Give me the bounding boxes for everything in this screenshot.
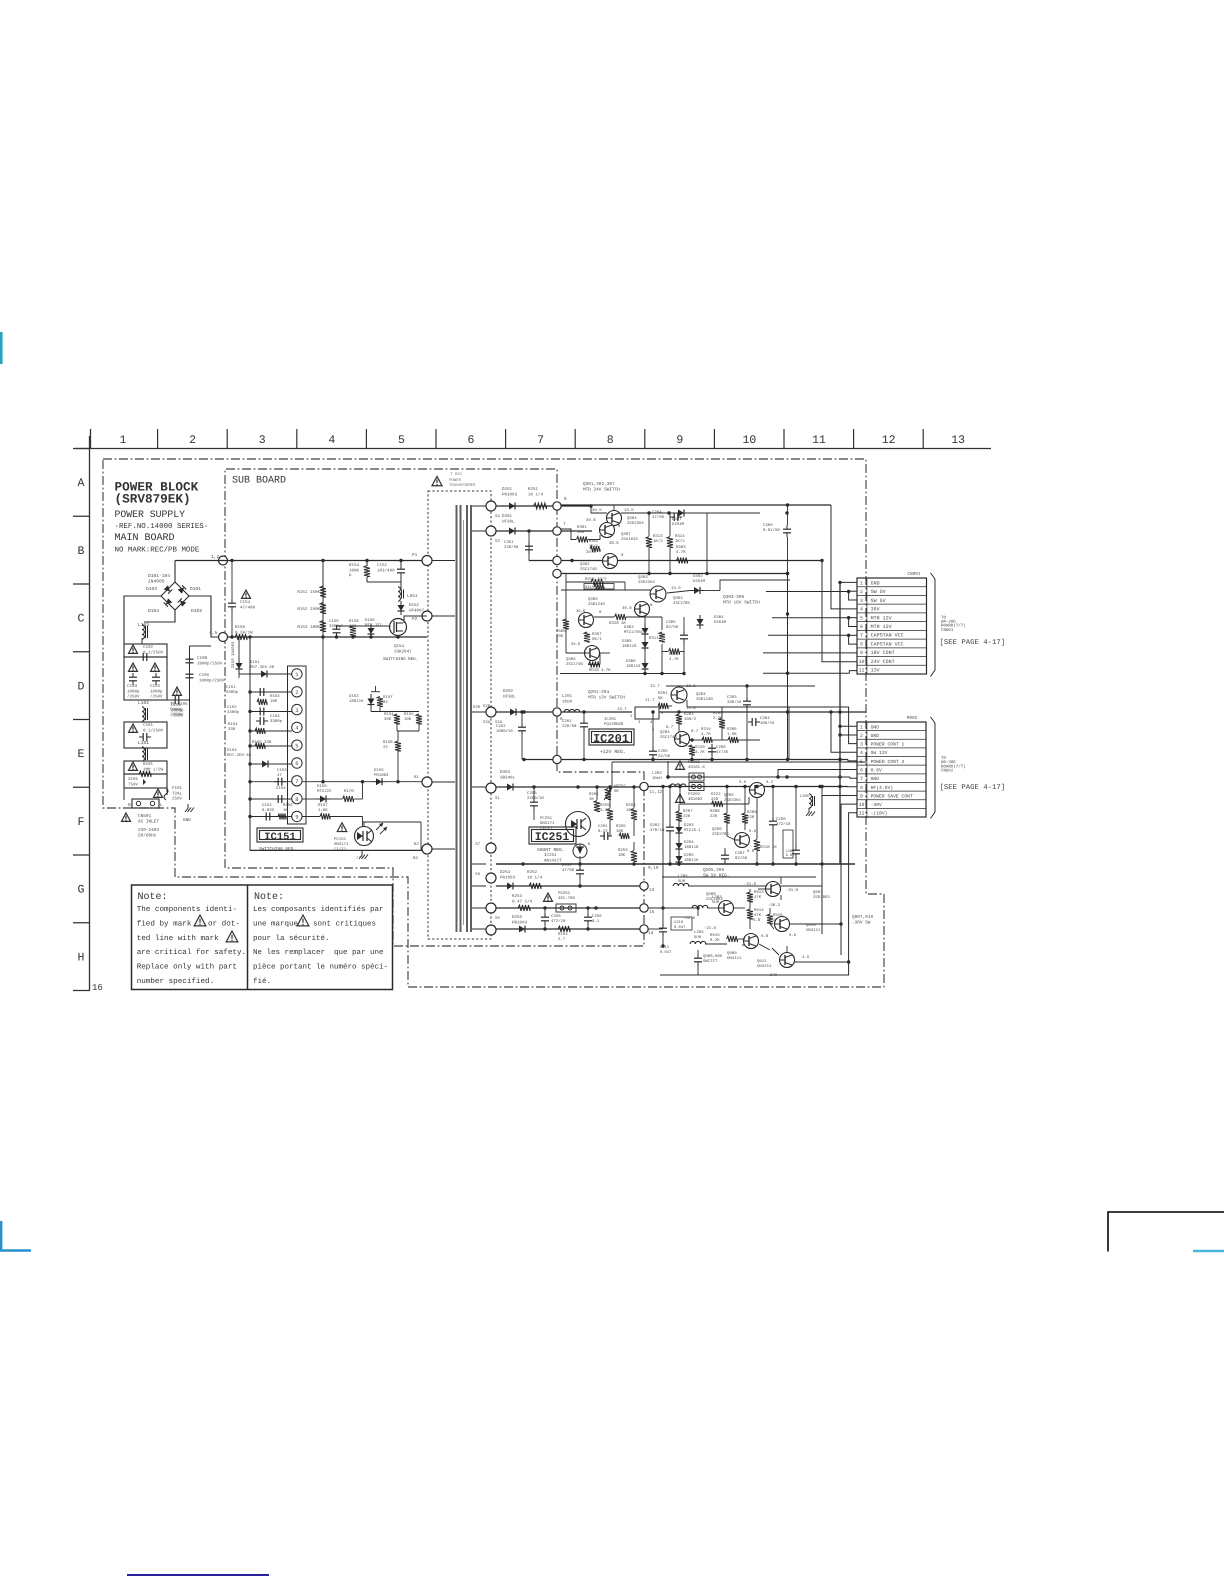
svg-text:5.9: 5.9 xyxy=(749,829,757,834)
svg-text:C102: C102 xyxy=(143,645,154,650)
svg-text:R203: R203 xyxy=(684,712,694,717)
svg-text:188118: 188118 xyxy=(684,845,699,850)
svg-text:F101: F101 xyxy=(172,786,183,791)
svg-text:D104: D104 xyxy=(148,608,159,614)
svg-text:C201: C201 xyxy=(562,719,572,724)
junction dots feeder a xyxy=(786,572,789,575)
svg-text:5: 5 xyxy=(398,434,405,447)
svg-text:47: 47 xyxy=(277,773,282,778)
svg-text:RD7.2E9-40: RD7.2E9-40 xyxy=(227,753,252,758)
svg-text:PR1003: PR1003 xyxy=(500,875,516,880)
optocoupler PC151 xyxy=(355,827,374,846)
wire Q154 source xyxy=(397,636,399,638)
svg-text:(SRV879EK): (SRV879EK) xyxy=(115,492,191,507)
resistor R261 xyxy=(594,801,600,812)
svg-text:R155 330: R155 330 xyxy=(252,740,272,745)
svg-text:R156: R156 xyxy=(235,625,246,630)
svg-text:R101: R101 xyxy=(143,762,154,767)
wire R210 xyxy=(756,798,758,839)
safety mark C101 xyxy=(129,724,138,732)
filter box C101/L101 xyxy=(124,722,167,748)
wire C209 xyxy=(795,787,797,847)
svg-text:6: 6 xyxy=(468,434,475,447)
svg-text:D154: D154 xyxy=(227,748,237,753)
svg-text:C152: C152 xyxy=(377,563,388,568)
resistor R201 xyxy=(658,703,668,709)
svg-text:2SA1015: 2SA1015 xyxy=(621,537,638,542)
inductor L102 xyxy=(142,707,144,712)
svg-text:GND: GND xyxy=(871,776,880,782)
svg-text:SWITCHING REG.: SWITCHING REG. xyxy=(383,657,418,662)
svg-text:R311: R311 xyxy=(649,636,659,641)
transformer terminal S1 xyxy=(486,783,496,793)
svg-text:SW 5V: SW 5V xyxy=(871,598,886,604)
svg-text:C154: C154 xyxy=(276,786,286,791)
wire C202 xyxy=(669,787,671,824)
diode D152 xyxy=(398,605,405,611)
resistor R914 xyxy=(747,909,753,919)
svg-text:S2B: S2B xyxy=(483,704,491,709)
wire c255 c256 xyxy=(544,908,546,913)
svg-text:R914: R914 xyxy=(754,908,764,913)
svg-text:5: 5 xyxy=(860,615,863,621)
svg-text:F: F xyxy=(78,816,85,829)
svg-text:250V: 250V xyxy=(172,797,183,802)
diode D303z xyxy=(642,628,649,634)
svg-text:5: 5 xyxy=(860,759,863,765)
svg-text:L201: L201 xyxy=(562,694,573,699)
transistor Q306 xyxy=(585,646,600,661)
svg-text:or dot-: or dot- xyxy=(208,919,240,928)
svg-text:8: 8 xyxy=(295,796,298,803)
note right warn xyxy=(297,915,309,926)
svg-text:4.7K: 4.7K xyxy=(701,732,711,737)
terminal node gnd12 xyxy=(553,755,561,763)
svg-text:1K: 1K xyxy=(283,808,288,813)
svg-text:1.6K: 1.6K xyxy=(318,808,328,813)
svg-text:10: 10 xyxy=(742,434,756,447)
wire to CN501 right xyxy=(166,788,168,795)
svg-text:PS202: PS202 xyxy=(688,792,701,797)
svg-text:POWER SAVE CONT: POWER SAVE CONT xyxy=(871,793,913,799)
diode D255 xyxy=(519,926,525,933)
svg-text:39.8: 39.8 xyxy=(576,609,586,614)
svg-text:Q205: Q205 xyxy=(724,793,734,798)
svg-text:GND: GND xyxy=(871,733,880,739)
junction dots 573 xyxy=(647,572,650,575)
wire C207 xyxy=(724,848,726,851)
inductor L206 xyxy=(809,794,811,799)
resistor R154 xyxy=(364,566,370,577)
svg-text:13V: 13V xyxy=(871,668,880,674)
svg-text:PC151: PC151 xyxy=(334,837,347,842)
svg-text:2SD2786: 2SD2786 xyxy=(712,832,729,837)
svg-text:2SC2785: 2SC2785 xyxy=(673,601,690,606)
wire feeder extra7 xyxy=(840,711,866,713)
capacitor C101 xyxy=(139,736,143,738)
svg-text:L205: L205 xyxy=(678,874,688,879)
svg-text:R261: R261 xyxy=(589,792,599,797)
svg-text:39K: 39K xyxy=(384,717,392,722)
svg-text:8: 8 xyxy=(607,434,614,447)
svg-text:2SB1240: 2SB1240 xyxy=(696,697,713,702)
svg-text:UF4007: UF4007 xyxy=(409,608,425,613)
svg-text:D101: D101 xyxy=(190,586,201,592)
sub board dash-dot border xyxy=(225,469,644,946)
svg-text:5.9: 5.9 xyxy=(739,780,747,785)
svg-text:D153: D153 xyxy=(349,694,359,699)
svg-text:3300p: 3300p xyxy=(270,719,283,724)
svg-text:38.8: 38.8 xyxy=(609,541,619,546)
wire R209 xyxy=(744,787,746,814)
svg-text:2: 2 xyxy=(295,689,298,696)
svg-text:GND: GND xyxy=(871,724,880,730)
svg-text:fied by mark: fied by mark xyxy=(137,919,192,928)
svg-text:R326: R326 xyxy=(669,652,679,657)
svg-text:47/35: 47/35 xyxy=(716,750,729,755)
wire d column xyxy=(678,804,680,811)
svg-text:D: D xyxy=(78,680,85,693)
potentiometer VR251 xyxy=(605,789,611,800)
svg-text:C309: C309 xyxy=(763,523,773,528)
svg-text:R253: R253 xyxy=(618,848,628,853)
svg-text:R151 150K: R151 150K xyxy=(297,590,320,595)
svg-text:R154: R154 xyxy=(349,563,360,568)
svg-text:C205: C205 xyxy=(658,749,668,754)
wire bridge left xyxy=(124,596,162,644)
svg-text:T2AL: T2AL xyxy=(172,791,183,796)
svg-text:0.01/50: 0.01/50 xyxy=(763,528,780,533)
svg-text:4.7K: 4.7K xyxy=(669,657,679,662)
wire q30x c xyxy=(688,512,760,514)
svg-text:MTZJ22: MTZJ22 xyxy=(317,789,332,794)
svg-text:10K: 10K xyxy=(577,530,585,535)
svg-text:[SEE PAGE 4-17]: [SEE PAGE 4-17] xyxy=(940,783,1006,792)
terminal node 1,2 xyxy=(219,556,228,565)
svg-text:SWITCHING REG.: SWITCHING REG. xyxy=(259,847,296,852)
svg-text:220: 220 xyxy=(711,797,719,802)
wire 18v rowb xyxy=(594,616,614,618)
junction dots bus250 xyxy=(248,690,251,693)
svg-text:8: 8 xyxy=(564,497,567,502)
IC151 pin circles 1-9 xyxy=(292,669,302,679)
svg-text:6: 6 xyxy=(860,768,863,774)
svg-text:Ne les remplacer que par une: Ne les remplacer que par une xyxy=(253,948,384,957)
svg-text:R313 10/2: R313 10/2 xyxy=(585,585,604,590)
svg-text:1: 1 xyxy=(860,724,863,730)
svg-text:-REF.NO.14000 SERIES-: -REF.NO.14000 SERIES- xyxy=(115,523,209,531)
svg-text:CAPSTAN VCC: CAPSTAN VCC xyxy=(871,633,904,639)
wire r158 down xyxy=(397,751,399,782)
svg-text:C351: C351 xyxy=(504,540,514,545)
svg-text:PC251: PC251 xyxy=(540,816,553,821)
resistor R301 xyxy=(577,537,588,543)
wire bridge right xyxy=(188,596,219,637)
svg-text:12: 12 xyxy=(882,434,896,447)
terminal node15 xyxy=(640,904,648,912)
svg-text:MTR 24V SWITCH: MTR 24V SWITCH xyxy=(583,488,620,493)
wire pin7 xyxy=(250,781,292,783)
svg-text:47K: 47K xyxy=(754,913,762,918)
capacitor C211 xyxy=(697,954,699,958)
svg-text:22/50: 22/50 xyxy=(658,754,671,759)
transistor Q206 xyxy=(735,833,750,848)
svg-text:1K/2: 1K/2 xyxy=(675,539,685,544)
jumper PS202 xyxy=(689,783,704,791)
junction a xyxy=(589,504,592,507)
filter box R101 xyxy=(124,761,167,774)
ground pc151 xyxy=(361,851,363,855)
terminal node 4,5 xyxy=(219,633,228,642)
svg-text:MTR 12V SWITCH: MTR 12V SWITCH xyxy=(588,696,625,701)
junction dots rail864 xyxy=(521,862,524,865)
svg-text:C206: C206 xyxy=(716,745,726,750)
svg-text:Q301,302,307: Q301,302,307 xyxy=(583,482,615,487)
svg-text:ON3171: ON3171 xyxy=(540,821,555,826)
connector CN902 table xyxy=(857,722,926,817)
svg-text:R206: R206 xyxy=(727,727,737,732)
svg-text:R252: R252 xyxy=(527,870,538,875)
svg-text:CN501: CN501 xyxy=(138,814,152,819)
wire rail ps201 xyxy=(668,776,850,778)
svg-text:C109: C109 xyxy=(199,673,210,678)
svg-text:R152 150K: R152 150K xyxy=(297,607,320,612)
wire 18v row xyxy=(566,581,592,583)
svg-text:5.8: 5.8 xyxy=(753,918,761,923)
jumper PS201 xyxy=(689,773,704,781)
svg-text:G: G xyxy=(78,884,85,897)
wire 30v bottom rail xyxy=(660,974,849,976)
transformer terminal S8 xyxy=(486,925,496,935)
svg-text:9: 9 xyxy=(295,814,298,821)
svg-text:D307: D307 xyxy=(672,517,682,522)
wire transformer left stubs xyxy=(432,560,455,562)
svg-text:R209: R209 xyxy=(747,810,757,815)
svg-text:2SC1740: 2SC1740 xyxy=(566,662,583,667)
svg-text:POWER: POWER xyxy=(449,478,462,483)
resistor R156b xyxy=(278,814,286,820)
svg-text:188119: 188119 xyxy=(349,699,364,704)
svg-text:-31.0: -31.0 xyxy=(786,888,799,893)
resistor R152 xyxy=(320,603,326,614)
resistor R251 xyxy=(534,503,547,509)
svg-text:VR251: VR251 xyxy=(614,784,627,789)
svg-text:330/16: 330/16 xyxy=(727,700,742,705)
svg-text:472/10: 472/10 xyxy=(551,919,566,924)
svg-text:-30V: -30V xyxy=(871,802,882,808)
resistor R307 xyxy=(584,632,590,642)
svg-text:H: H xyxy=(78,951,85,964)
resistor R158c xyxy=(395,741,401,751)
svg-text:IC251: IC251 xyxy=(544,853,557,858)
svg-text:Q911: Q911 xyxy=(757,959,767,964)
wire 12v rail top xyxy=(666,685,815,687)
resistor R206 xyxy=(728,737,738,743)
transistor Q910 xyxy=(775,917,790,932)
svg-text:Q305: Q305 xyxy=(588,597,598,602)
capacitor C204 xyxy=(748,721,752,723)
svg-text:fié.: fié. xyxy=(253,977,271,986)
svg-text:R253: R253 xyxy=(512,894,523,899)
svg-text:Q302: Q302 xyxy=(580,562,590,567)
svg-text:pièce portant le numéro spéci-: pièce portant le numéro spéci- xyxy=(253,963,388,972)
power block dash-dot border xyxy=(103,459,884,987)
capacitor C253 xyxy=(533,798,535,802)
varistor Z101 xyxy=(143,779,149,785)
wire feeder gnd thick xyxy=(839,582,841,864)
svg-text:24V: 24V xyxy=(770,973,778,978)
fuse F101 xyxy=(164,788,168,800)
capacitor C255 xyxy=(544,913,546,917)
svg-text:1000p: 1000p xyxy=(127,689,140,694)
inductor L101 xyxy=(142,747,144,752)
svg-text:R210 1K: R210 1K xyxy=(760,845,777,850)
svg-text:0.22: 0.22 xyxy=(598,829,608,834)
wire 12v gnd rail xyxy=(524,759,848,761)
svg-text:D264M: D264M xyxy=(693,579,706,584)
wire L205 out xyxy=(688,885,820,887)
junction dots feeders xyxy=(838,710,841,713)
capacitor C104 xyxy=(132,673,134,677)
capacitor C151 xyxy=(256,691,260,693)
wire row731 xyxy=(396,724,398,731)
svg-text:3: 3 xyxy=(860,598,863,604)
svg-text:5K: 5K xyxy=(614,789,619,794)
svg-text:SUB BOARD: SUB BOARD xyxy=(232,476,286,487)
svg-text:5UH: 5UH xyxy=(712,900,720,905)
svg-text:POWER SUPPLY: POWER SUPPLY xyxy=(115,509,186,520)
diode D154 xyxy=(262,761,268,768)
wire rail S6 ground xyxy=(496,863,855,865)
IC151 pin strip xyxy=(288,666,307,824)
svg-text:9,10: 9,10 xyxy=(648,866,659,871)
svg-text:14: 14 xyxy=(648,931,654,936)
svg-text:M902: M902 xyxy=(907,716,918,721)
svg-text:T 651: T 651 xyxy=(450,472,463,477)
wire d153 loop xyxy=(371,691,380,693)
svg-text:R251: R251 xyxy=(528,487,539,492)
svg-text:C264: C264 xyxy=(652,510,662,515)
svg-text:5: 5 xyxy=(295,742,298,749)
capacitor C201 xyxy=(583,719,585,723)
wire L103 to box xyxy=(141,638,143,644)
svg-text:13: 13 xyxy=(951,434,965,447)
svg-text:13.5: 13.5 xyxy=(624,508,634,513)
diode D156b xyxy=(368,628,375,634)
svg-text:1K: 1K xyxy=(589,797,594,802)
svg-text:P1: P1 xyxy=(412,553,418,558)
svg-text:1.5K: 1.5K xyxy=(727,732,737,737)
svg-text:13: 13 xyxy=(649,888,655,893)
wire feeder pin4 36v xyxy=(831,505,857,609)
svg-text:Q907,910: Q907,910 xyxy=(852,915,873,920)
resistor R207 xyxy=(676,811,682,821)
diode D204b xyxy=(676,843,683,849)
transistor Q911 xyxy=(780,953,795,968)
capacitor C102 xyxy=(139,656,143,658)
transistor Q154 switching MOSFET xyxy=(390,619,407,636)
svg-text:CN802: CN802 xyxy=(941,769,954,774)
svg-text:R913: R913 xyxy=(754,890,764,895)
svg-text:100/16: 100/16 xyxy=(760,721,775,726)
wire 24v rail xyxy=(561,505,591,507)
svg-text:188119: 188119 xyxy=(626,664,641,669)
transistor Q204 xyxy=(675,732,690,747)
wire feeder extra4 xyxy=(788,707,790,760)
svg-text:C151: C151 xyxy=(226,685,236,690)
optocoupler PC251 xyxy=(566,812,591,837)
svg-text:11: 11 xyxy=(859,811,865,817)
svg-text:Note:: Note: xyxy=(254,892,284,903)
svg-text:2: 2 xyxy=(860,733,863,739)
svg-text:49101.6: 49101.6 xyxy=(688,765,705,770)
svg-text:C154: C154 xyxy=(240,600,251,605)
inductor L103 xyxy=(142,625,144,630)
diode D305 xyxy=(642,642,649,648)
transistor Q303b xyxy=(650,586,666,602)
wire to CN501 left xyxy=(123,788,125,800)
capacitor C205 xyxy=(652,747,654,751)
resistor R170 xyxy=(343,796,354,802)
wire 18v out xyxy=(667,591,690,594)
svg-text:1K/1: 1K/1 xyxy=(589,544,599,549)
svg-text:+12V REG.: +12V REG. xyxy=(600,749,626,755)
svg-text:R306: R306 xyxy=(556,629,566,634)
svg-text:P2: P2 xyxy=(412,617,418,622)
wire feeder pin9 18v xyxy=(763,652,857,654)
svg-text:L551: L551 xyxy=(407,594,418,599)
svg-text:GND: GND xyxy=(871,580,880,586)
wire R154 xyxy=(366,561,368,567)
svg-text:330: 330 xyxy=(228,727,236,732)
svg-text:5K: 5K xyxy=(658,696,663,701)
svg-text:D264M: D264M xyxy=(672,522,685,527)
svg-text:R301: R301 xyxy=(577,525,587,530)
svg-text:L206: L206 xyxy=(800,794,810,799)
svg-text:NO MARK:REC/PB MODE: NO MARK:REC/PB MODE xyxy=(115,546,200,555)
svg-text:Z101: Z101 xyxy=(128,777,139,782)
svg-text:C253: C253 xyxy=(527,791,537,796)
svg-text:R314: R314 xyxy=(675,534,685,539)
svg-text:C210: C210 xyxy=(674,920,684,925)
transformer terminal S7 xyxy=(486,843,496,853)
wire C253 drop xyxy=(533,787,535,798)
resistor R157 xyxy=(377,697,383,707)
capacitor C207 xyxy=(724,851,726,855)
bridge rectifier D101-D104 xyxy=(161,582,189,610)
svg-text:-30.3: -30.3 xyxy=(768,903,781,908)
capacitor C305 xyxy=(683,631,685,635)
svg-text:R157: R157 xyxy=(383,695,393,700)
fusible link PS251 xyxy=(556,904,576,912)
svg-text:S6: S6 xyxy=(475,872,480,877)
resistor R314v xyxy=(667,537,673,548)
svg-text:(1/2): (1/2) xyxy=(334,847,346,852)
svg-text:C252: C252 xyxy=(496,724,506,729)
svg-text:R265: R265 xyxy=(616,824,626,829)
svg-text:C250: C250 xyxy=(776,817,786,822)
svg-text:2SK2047: 2SK2047 xyxy=(394,649,412,654)
diode D251 xyxy=(509,503,515,510)
inductor L202 xyxy=(670,784,675,787)
svg-text:4.7K: 4.7K xyxy=(676,550,686,555)
svg-text:R222: R222 xyxy=(711,792,721,797)
svg-text:Q154: Q154 xyxy=(394,644,405,649)
transistor Q909 xyxy=(744,934,759,949)
svg-text:D103: D103 xyxy=(146,586,157,592)
svg-text:47K: 47K xyxy=(754,895,762,900)
svg-text:D102: D102 xyxy=(191,608,202,614)
